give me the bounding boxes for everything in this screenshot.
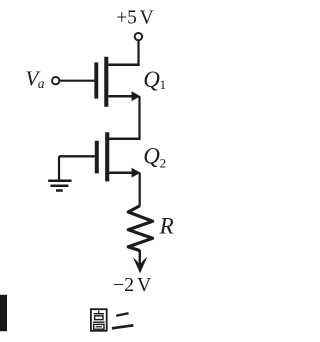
wire resistor to -2V arrow: [139, 250, 141, 266]
svg-text:R: R: [159, 214, 174, 239]
Q2 gate bar: [95, 141, 99, 174]
svg-text:Q: Q: [143, 67, 160, 92]
Q2 source arrowhead: [132, 168, 141, 178]
ground riser: [58, 156, 60, 179]
Q1 source arrowhead: [132, 91, 141, 101]
supply terminal circle: [135, 33, 142, 40]
transistor Q2: [97, 132, 141, 181]
wire Va circle to Q1 gate: [60, 80, 95, 82]
transistor Q1: [96, 57, 140, 107]
svg-text:−2: −2: [113, 274, 134, 296]
svg-text:V: V: [137, 274, 152, 296]
wire Q2 source to resistor: [139, 173, 141, 207]
arrowhead to -2 V: [133, 257, 147, 273]
ground symbol: [48, 156, 71, 190]
svg-text:1: 1: [160, 77, 167, 92]
svg-text:+5: +5: [116, 8, 137, 29]
ground bar 2: [51, 185, 69, 188]
Q1 source lead: [108, 95, 132, 98]
svg-text:a: a: [38, 76, 45, 91]
ground bar 1: [48, 180, 71, 183]
caption glyph 圖: [91, 309, 107, 331]
resistor R: [128, 206, 152, 251]
svg-text:2: 2: [160, 156, 167, 171]
input terminal circle Va: [52, 77, 59, 84]
Q1 drain lead: [108, 63, 139, 66]
svg-text:Q: Q: [143, 144, 160, 169]
Q1 gate bar: [94, 62, 98, 98]
wire supply circle to Q1 drain: [137, 41, 139, 65]
svg-text:V: V: [140, 8, 154, 29]
scan edge artifact: [0, 295, 7, 331]
ground bar 3: [56, 189, 63, 192]
wire ground to Q2 gate: [59, 155, 95, 157]
Q2 drain lead: [109, 138, 141, 141]
caption glyph 二: [112, 313, 133, 328]
Q2 channel bar: [105, 132, 109, 181]
wire Q1 source to Q2 drain: [138, 96, 140, 139]
Q1 channel bar: [104, 57, 108, 107]
Q2 source lead: [109, 171, 132, 174]
